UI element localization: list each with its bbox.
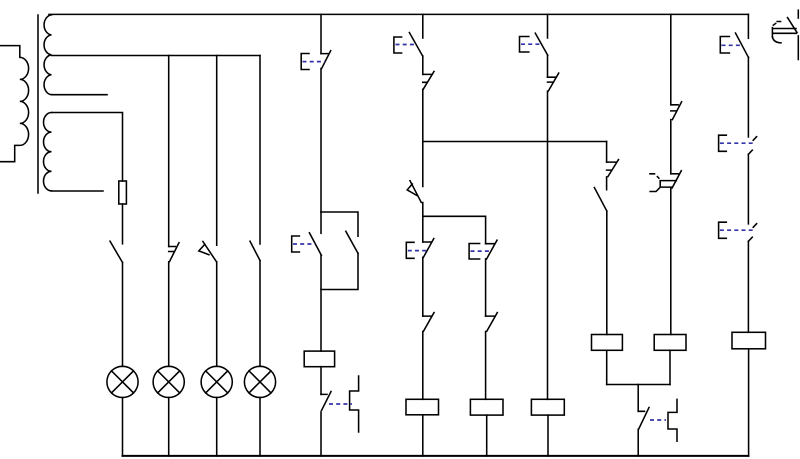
switch Q1 blade (NO) — [110, 241, 123, 262]
wire col6b to NC contact — [485, 259, 487, 316]
wire col6 to coil — [422, 332, 424, 400]
wire col2 from second bus — [168, 56, 170, 247]
time-delay contact blade top right — [788, 18, 798, 33]
coil K6 — [654, 335, 686, 351]
wire col2 lamp to bus — [168, 398, 170, 456]
push button SB5 NC contact — [486, 240, 497, 259]
wire col3 from second bus — [216, 56, 218, 246]
contact NC col9 — [671, 102, 682, 120]
overload contact NC col5 — [321, 392, 331, 411]
lamp H2 — [153, 366, 184, 397]
wire col1 fuse to switch — [122, 204, 124, 244]
push button SB5 actuator E — [469, 244, 480, 260]
wire col6b to coil — [485, 332, 487, 400]
transformer T1 secondary winding S1 — [44, 15, 51, 95]
wire col6 button to contact — [422, 56, 424, 74]
wire col8 coil to merge — [606, 350, 608, 384]
contact K1 NO holding blade — [346, 231, 358, 253]
push button SB2 NO blade — [309, 233, 321, 256]
wire col7 from top bus — [547, 14, 549, 38]
contact NC col6 lower — [423, 313, 434, 332]
limit switch col3 wedge — [199, 244, 209, 254]
wire col9 between contacts — [670, 120, 672, 174]
wire second bus — [52, 55, 261, 57]
wire col9 from top bus — [670, 14, 672, 104]
limit switch col6 blade — [410, 181, 421, 203]
transformer T1 primary winding — [0, 46, 29, 162]
push button SB4 NC contact — [423, 239, 434, 258]
push button SB4 link — [408, 250, 429, 252]
push button SB9 link — [720, 229, 754, 231]
wire col6 to NC contact — [422, 257, 424, 316]
wire col5 to branch point — [320, 69, 322, 213]
wire bottom bus — [123, 455, 749, 457]
wire col8 from mid bus — [606, 142, 608, 163]
push button SB6 NO blade — [535, 33, 547, 55]
wire col9 coil to merge — [669, 350, 671, 384]
wire right bus top segment — [797, 10, 799, 18]
wire col6 limit to E-NC — [422, 203, 424, 243]
switch Q4 blade (NO) — [250, 241, 260, 260]
overload link col5 — [329, 403, 352, 405]
push button SB1 actuator E — [301, 54, 309, 70]
coil K2 — [406, 399, 439, 415]
wire col10 between buttons — [747, 154, 749, 224]
lamp H3 — [201, 366, 232, 397]
wire col6 contact to limit switch — [422, 89, 424, 186]
wire col8 between contacts — [606, 177, 608, 190]
wire col5 coil to contact — [320, 367, 322, 395]
wire col5 button to coil — [320, 255, 322, 351]
lamp H1 — [107, 366, 138, 397]
push button SB9 actuator E — [719, 222, 727, 238]
push button SB8 blade marks — [748, 137, 756, 155]
coil K7 — [732, 332, 766, 349]
wire merge to bus — [637, 429, 639, 456]
overload link merge — [650, 419, 666, 421]
wire col6 from top bus — [422, 14, 424, 38]
overload heater element right — [668, 399, 677, 441]
limit switch col6 wedge — [407, 184, 417, 196]
push button SB6 link — [521, 43, 542, 45]
wire branch bus to col6b — [423, 216, 486, 243]
coil K5 — [592, 335, 623, 351]
wire col3 lamp to bus — [216, 398, 218, 456]
fuse F1 — [119, 181, 127, 204]
overload contact NC merge — [638, 408, 649, 430]
wire col9 to coil — [670, 188, 672, 335]
wire merge bar — [607, 384, 670, 386]
wire col1 switch to lamp — [122, 263, 124, 367]
contact NC col7 — [548, 73, 559, 91]
wire col10 from top bus corner — [747, 14, 749, 38]
wire holding branch top — [321, 212, 358, 236]
push button SB3 actuator E — [394, 37, 402, 53]
overload heater element col5 — [350, 376, 359, 432]
coil K4 — [531, 399, 564, 415]
push button SB3 link — [396, 44, 418, 46]
wire col7 coil to bus — [547, 415, 549, 456]
wire col7 button to contact — [547, 55, 549, 77]
wire S2 bottom stub — [52, 190, 104, 192]
lamp H4 — [244, 366, 275, 397]
wire holding branch bottom — [321, 253, 358, 289]
push button SB1 link — [303, 61, 326, 63]
wire S1 bottom stub — [52, 94, 108, 96]
contact NC col6b lower — [486, 313, 498, 332]
contact NO col8 blade — [594, 188, 606, 211]
contact NC col6 top — [423, 72, 434, 90]
contact NC col8 — [607, 160, 619, 177]
transformer T1 secondary winding S2 — [44, 113, 52, 191]
push button SB8 actuator E — [719, 135, 727, 151]
limit switch col3 blade — [203, 242, 217, 262]
wire top bus — [49, 13, 748, 15]
time-delay contact NC col9 — [650, 171, 681, 192]
wire col5 branch to button — [320, 212, 322, 233]
coil K1 — [304, 351, 334, 367]
wire col6b coil to bus — [486, 415, 488, 456]
push button SB3 NO blade — [409, 33, 422, 56]
time-delay contact hook top right — [772, 37, 781, 43]
wire col8 to coil — [606, 211, 608, 335]
wire col7 to coil — [547, 91, 549, 399]
wire col2 contact to lamp — [168, 262, 170, 367]
wire merge stem — [637, 385, 639, 412]
wire col5 from top bus — [320, 14, 322, 53]
wire col10 to coil — [747, 241, 749, 332]
wire col10 to button A — [747, 58, 749, 138]
wire col6 coil to bus — [422, 415, 424, 456]
push button SB2 actuator E — [292, 236, 300, 252]
wire col1 lamp to bus — [122, 398, 124, 456]
wire mid bus — [423, 141, 607, 143]
push button SB7 NO blade — [736, 33, 749, 57]
wire col4 from second bus — [259, 56, 261, 245]
wire col4 switch to lamp — [259, 261, 261, 367]
push button SB6 actuator E — [520, 37, 529, 53]
push button SB8 link — [720, 142, 754, 144]
time-delay contact whiskers top right — [773, 22, 780, 26]
wire col5 contact to bus — [320, 412, 322, 456]
push button SB2 link — [293, 243, 315, 245]
push button SB5 link — [471, 250, 492, 252]
push button SB7 link — [722, 44, 743, 46]
coil K3 — [470, 399, 503, 415]
transformer T1 core — [37, 15, 39, 193]
wire col4 lamp to bus — [259, 398, 261, 456]
push button SB4 actuator E — [406, 242, 414, 258]
wire col3 switch to lamp — [216, 262, 218, 367]
contact NC col2 — [169, 243, 179, 262]
push button SB7 actuator E — [720, 37, 729, 54]
wire right bus lower segment — [797, 36, 799, 60]
time-delay contact box top right — [772, 28, 796, 37]
push button SB9 blade marks — [748, 224, 756, 242]
wire col10 coil to bus — [748, 349, 750, 456]
wire col1 from S2 tap — [52, 113, 123, 182]
push button SB1 NC contact — [321, 51, 331, 69]
